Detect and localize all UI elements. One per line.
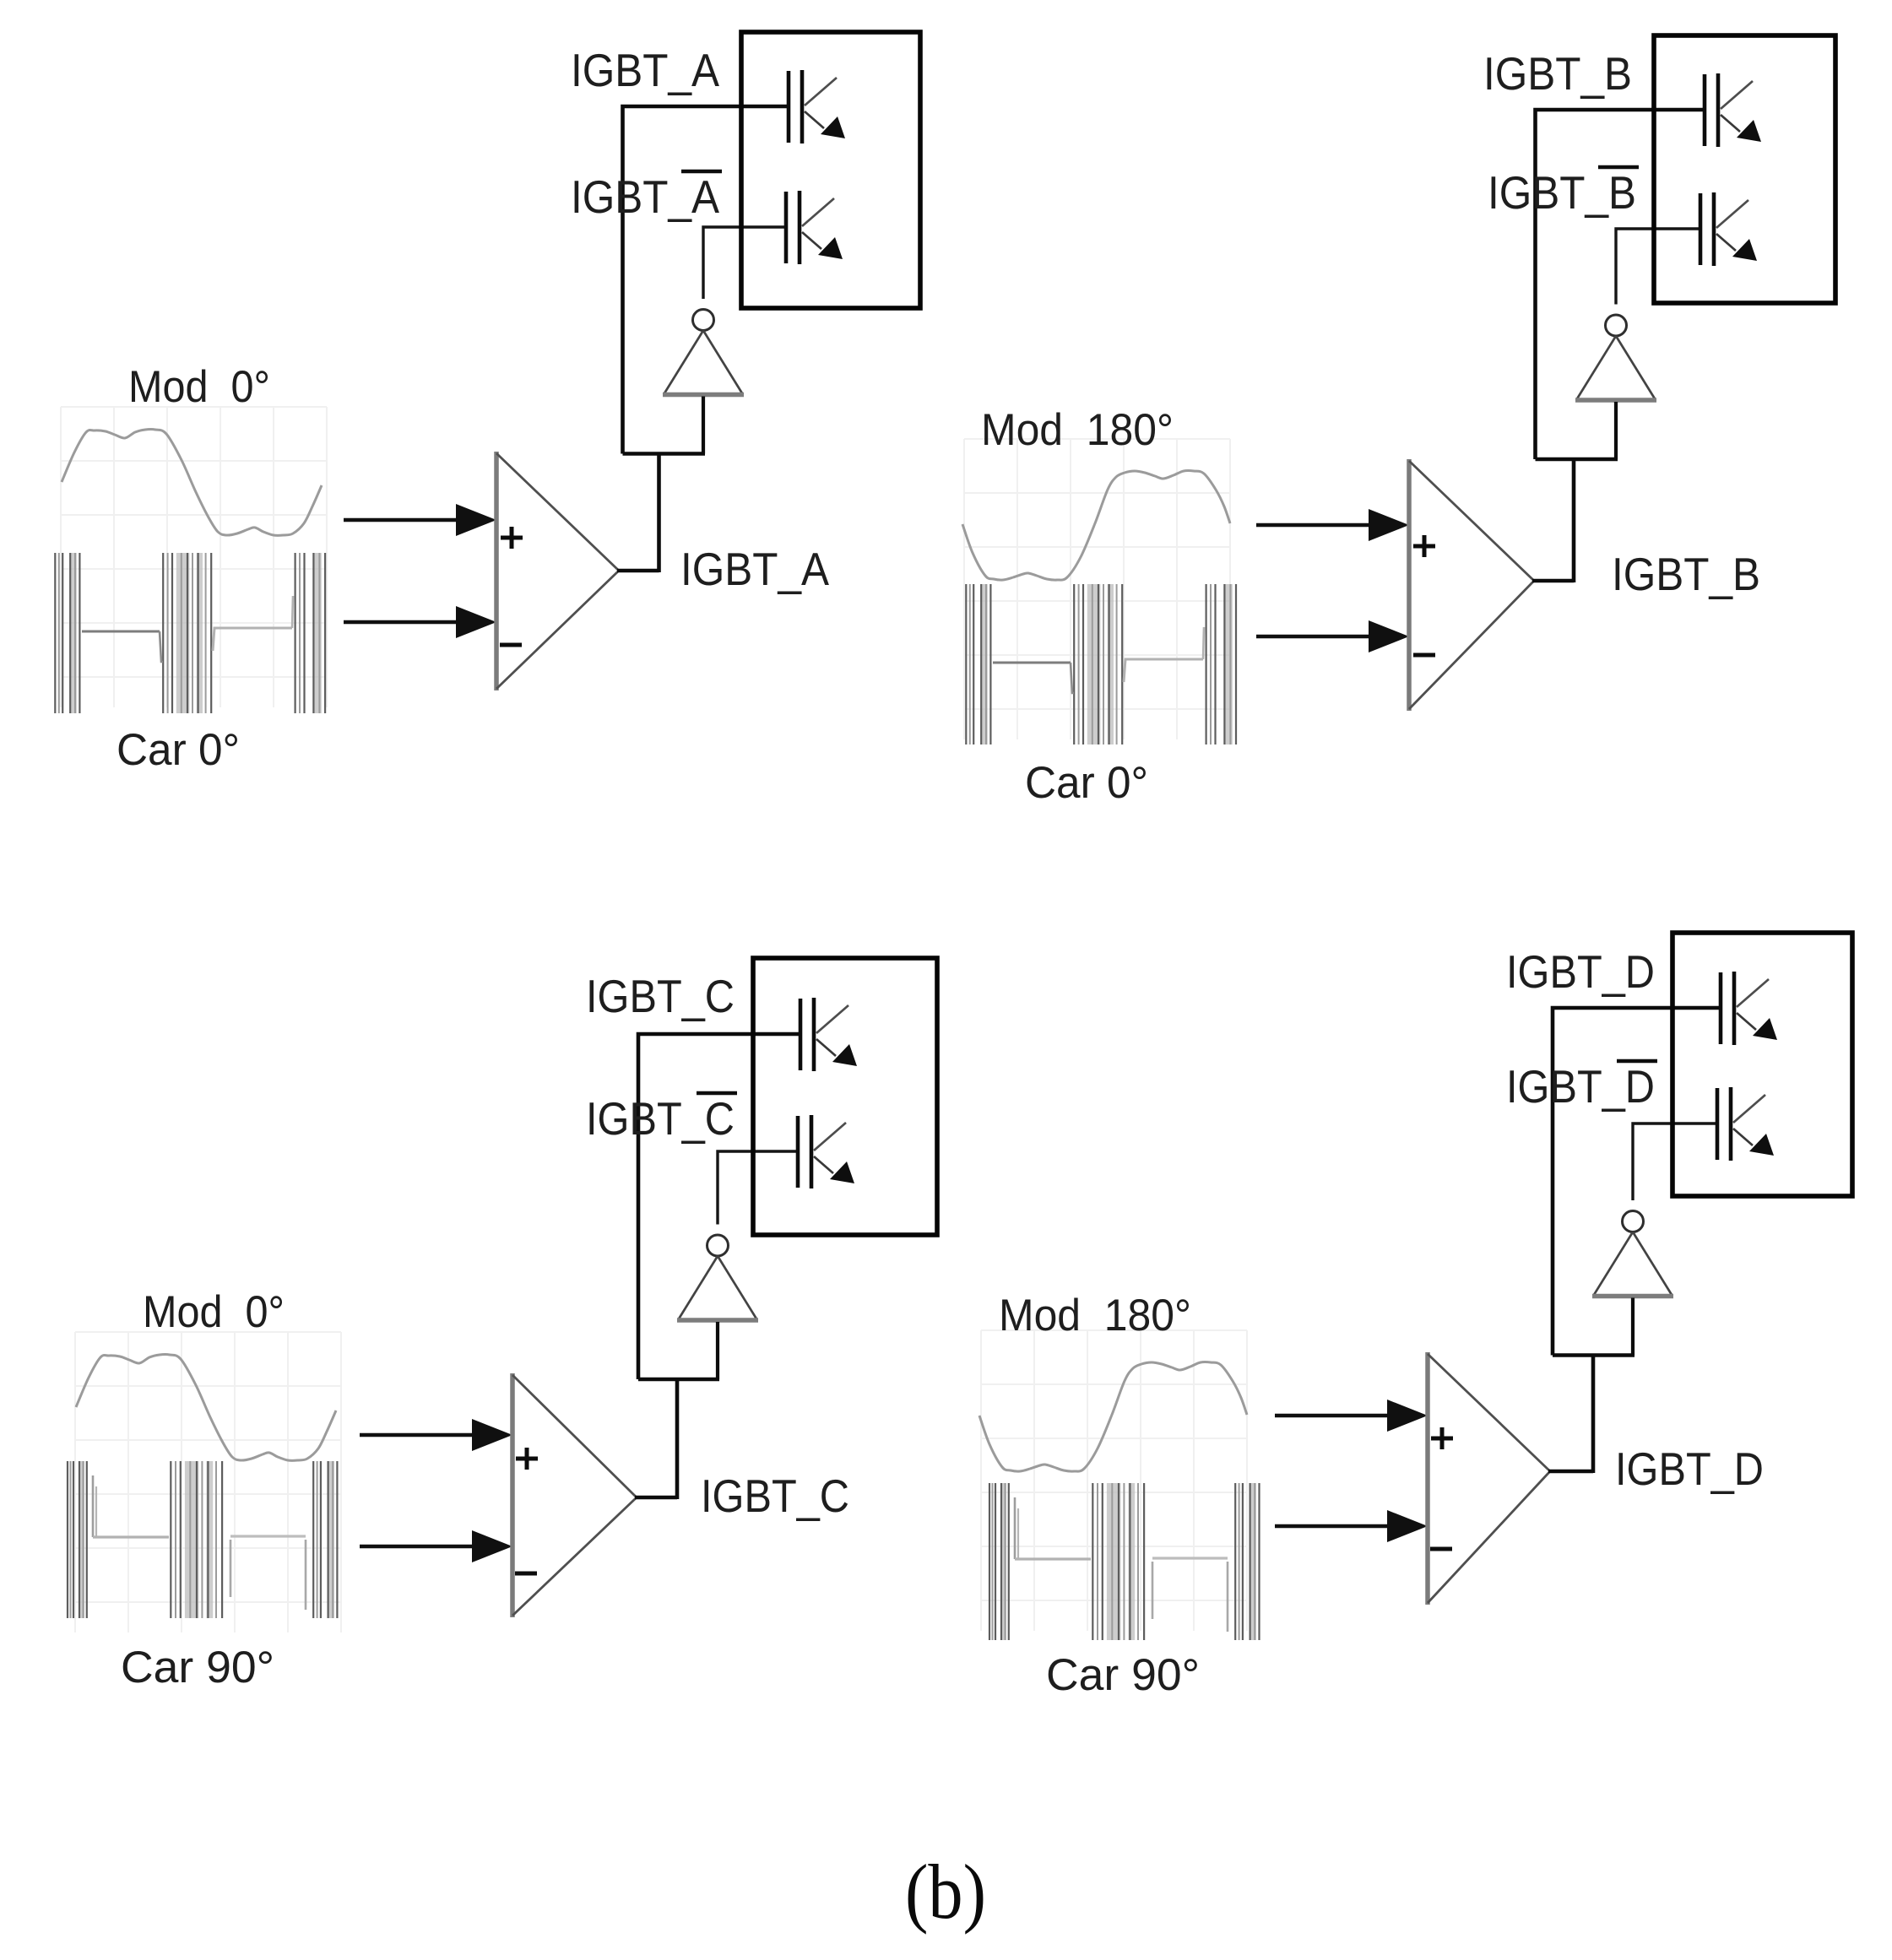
transistor Q_C (upper) (800, 998, 857, 1071)
wire gate feed IGBT_A (623, 106, 789, 454)
transistor Q_B (upper) (1705, 73, 1761, 147)
carrier waveform Car A (55, 553, 325, 713)
svg-text:IGBT_D: IGBT_D (1506, 945, 1655, 998)
arrow to - input C (360, 1530, 512, 1562)
transistor Q_Abar (lower) (786, 191, 843, 264)
node T junction A (623, 452, 706, 456)
svg-text:IGBT_B: IGBT_B (1488, 166, 1636, 219)
node T junction D (1553, 1353, 1634, 1357)
scope grid A (61, 407, 327, 707)
arrow to + input D (1275, 1400, 1428, 1432)
carrier waveform Car B (966, 584, 1236, 744)
arrow to - input D (1275, 1510, 1428, 1542)
wire inverter input D (1631, 1298, 1634, 1356)
wire inverter output to gate B (1616, 229, 1700, 305)
svg-text:IGBT_A: IGBT_A (571, 171, 719, 223)
modulating waveform Mod C (76, 1355, 336, 1461)
wire inverter output to gate D (1633, 1123, 1717, 1200)
wire inverter input B (1614, 402, 1618, 459)
arrow to - input B (1256, 620, 1409, 652)
transistor Q_Dbar (lower) (1717, 1087, 1774, 1161)
wire inverter input C (716, 1322, 719, 1379)
svg-text:IGBT_D: IGBT_D (1615, 1443, 1764, 1495)
wire output riser A (657, 454, 661, 573)
wire output riser D (1591, 1356, 1596, 1474)
svg-text:Car 90°: Car 90° (1046, 1650, 1200, 1700)
modulating waveform Mod A (62, 430, 322, 536)
inverter (NOT gate) A (663, 310, 744, 395)
comparator UC (512, 1373, 637, 1617)
svg-text:IGBT_C: IGBT_C (586, 970, 735, 1022)
arrow to + input A (344, 504, 496, 536)
wire inverter output to gate A (703, 227, 786, 299)
arrow to + input B (1256, 509, 1409, 541)
svg-text:IGBT_C: IGBT_C (701, 1470, 849, 1522)
comparator UA (496, 452, 619, 690)
modulating waveform Mod D (979, 1362, 1247, 1472)
modulating waveform Mod B (962, 471, 1230, 581)
svg-text:Mod 180°: Mod 180° (999, 1291, 1191, 1340)
transistor Q_Bbar (lower) (1700, 192, 1757, 266)
node T junction B (1536, 458, 1618, 462)
svg-text:Car 90°: Car 90° (121, 1643, 274, 1692)
IGBT half-bridge module box D (1672, 933, 1852, 1196)
net label IGBT_C inverted (697, 1091, 737, 1096)
scope grid B (964, 439, 1230, 739)
wire comparator output B (1532, 579, 1574, 583)
wire comparator output D (1548, 1470, 1593, 1474)
wire inverter output to gate C (718, 1151, 798, 1225)
inverter (NOT gate) C (677, 1235, 758, 1320)
net label IGBT_B inverted (1598, 165, 1639, 170)
svg-text:Mod 0°: Mod 0° (143, 1287, 285, 1337)
svg-text:IGBT_A: IGBT_A (571, 44, 719, 96)
IGBT half-bridge module box B (1654, 35, 1835, 303)
svg-text:IGBT_D: IGBT_D (1506, 1060, 1655, 1113)
arrow to - input A (344, 606, 496, 638)
svg-text:(b): (b) (905, 1849, 986, 1935)
wire output riser B (1572, 459, 1576, 582)
svg-text:IGBT_A: IGBT_A (680, 543, 829, 595)
wire gate feed IGBT_C (638, 1034, 800, 1379)
node T junction C (638, 1378, 719, 1382)
svg-text:Car 0°: Car 0° (117, 725, 240, 775)
net label IGBT_A inverted (681, 170, 722, 174)
transistor Q_Cbar (lower) (798, 1115, 854, 1188)
wire gate feed IGBT_D (1553, 1008, 1721, 1356)
svg-text:IGBT_C: IGBT_C (586, 1092, 735, 1145)
wire inverter input A (702, 397, 705, 454)
IGBT half-bridge module box A (741, 32, 920, 308)
inverter (NOT gate) D (1592, 1211, 1673, 1297)
comparator UD (1428, 1352, 1550, 1605)
svg-text:Mod 0°: Mod 0° (128, 362, 270, 412)
scope grid C (75, 1332, 341, 1632)
wire output riser C (675, 1379, 680, 1499)
wire comparator output C (635, 1496, 677, 1500)
carrier waveform Car C (68, 1461, 337, 1618)
svg-text:IGBT_B: IGBT_B (1483, 47, 1632, 100)
net label IGBT_D inverted (1617, 1059, 1657, 1064)
comparator UB (1409, 459, 1534, 711)
inverter (NOT gate) B (1575, 315, 1656, 400)
wire comparator output A (617, 569, 659, 573)
arrow to + input C (360, 1419, 512, 1451)
transistor Q_A (upper) (789, 70, 845, 143)
svg-text:IGBT_B: IGBT_B (1612, 548, 1760, 600)
carrier waveform Car D (989, 1483, 1260, 1640)
svg-text:Mod 180°: Mod 180° (981, 405, 1174, 455)
scope grid D (981, 1330, 1247, 1631)
IGBT half-bridge module box C (753, 958, 937, 1235)
wire gate feed IGBT_B (1536, 110, 1705, 459)
transistor Q_D (upper) (1721, 972, 1777, 1045)
svg-text:Car 0°: Car 0° (1025, 758, 1148, 808)
